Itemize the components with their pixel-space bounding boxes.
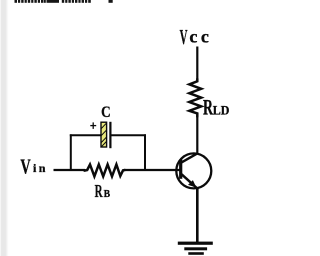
collector wire (to RLD) <box>196 116 198 153</box>
wire RB to base <box>125 169 180 171</box>
RC loop top-right wire <box>110 134 146 136</box>
svg-text:B: B <box>104 189 111 201</box>
ground symbol <box>178 242 213 255</box>
RC loop left vertical wire <box>70 134 72 171</box>
capacitor C plus sign <box>90 122 96 128</box>
capacitor C positive plate (hatched) <box>101 122 107 147</box>
svg-text:LD: LD <box>213 103 230 118</box>
cropped text row (top) <box>15 0 113 3</box>
transistor emitter arrowhead <box>188 180 196 187</box>
resistor RB <box>85 165 125 177</box>
wire Vcc to RLD <box>196 47 198 81</box>
transistor Q1 circle <box>176 153 211 188</box>
transistor emitter stroke <box>182 174 199 189</box>
svg-text:V: V <box>180 25 188 49</box>
Vcc label <box>180 25 213 49</box>
page left edge shading <box>0 0 9 256</box>
RLD label <box>203 95 229 119</box>
svg-text:cc: cc <box>189 27 212 47</box>
RC loop right vertical wire <box>144 134 146 171</box>
transistor base bar <box>179 159 182 178</box>
wire Vin to RB <box>54 169 86 171</box>
transistor collector stroke <box>181 153 198 163</box>
Vin label <box>20 155 47 178</box>
svg-text:V: V <box>20 155 30 178</box>
RC loop top-left wire <box>70 134 101 136</box>
RB label <box>95 183 111 202</box>
svg-text:R: R <box>95 183 103 202</box>
emitter wire (to ground) <box>196 189 199 243</box>
capacitor C negative plate <box>109 122 111 148</box>
svg-text:C: C <box>101 104 111 121</box>
svg-text:in: in <box>33 161 48 175</box>
resistor RLD <box>189 79 201 117</box>
